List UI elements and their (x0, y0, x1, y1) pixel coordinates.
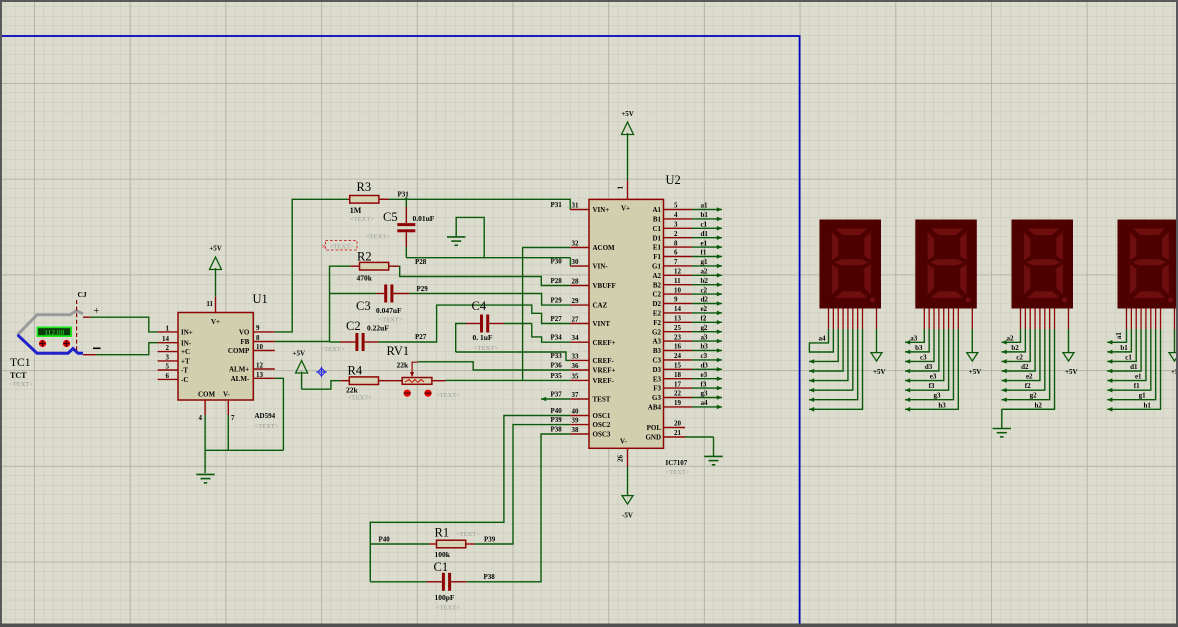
capacitor C3 (376, 285, 409, 303)
svg-text:26: 26 (617, 455, 625, 463)
svg-text:G2: G2 (652, 328, 661, 336)
wire ground bus U1 (205, 449, 283, 451)
svg-text:×: × (321, 241, 326, 251)
svg-text:3: 3 (674, 221, 678, 229)
svg-text:VINT: VINT (593, 320, 611, 328)
U2 pin 2 D1 (652, 230, 692, 242)
TC1 minus terminal label (93, 347, 101, 349)
svg-text:d2: d2 (1021, 363, 1029, 371)
svg-text:C1: C1 (652, 225, 661, 233)
wire net b2 (692, 277, 722, 287)
label TCT (10, 371, 27, 380)
node P28 wire R2 to U2.VBUFF (399, 266, 570, 285)
U2 pin 16 B3 (653, 343, 692, 355)
svg-text:<TEXT>: <TEXT> (350, 216, 374, 223)
U2 pin 26 V- (617, 438, 628, 467)
svg-text:CREF+: CREF+ (593, 339, 616, 347)
label P31 (left) (398, 191, 410, 199)
svg-text:C2: C2 (652, 291, 661, 299)
svg-text:7: 7 (674, 258, 678, 266)
svg-text:12: 12 (674, 268, 682, 276)
svg-text:V-: V- (223, 391, 231, 399)
svg-text:POL: POL (647, 424, 662, 432)
net label P40 (551, 407, 563, 415)
svg-text:0.22uF: 0.22uF (367, 324, 389, 333)
U2 pin 24 C3 (652, 352, 692, 364)
svg-text:40: 40 (572, 408, 580, 416)
svg-text:A3: A3 (652, 338, 661, 346)
7-seg display digit 4 (820, 220, 882, 309)
svg-text:ALM-: ALM- (231, 375, 250, 383)
svg-text:C4: C4 (472, 299, 487, 313)
R3 text placeholder (350, 216, 374, 223)
svg-text:100k: 100k (435, 550, 451, 559)
wire net e1 (692, 239, 722, 249)
label P27 (left) (415, 333, 427, 341)
svg-text:5: 5 (166, 363, 170, 371)
svg-text:f3: f3 (701, 380, 707, 388)
7-seg display digit 2 (1012, 220, 1074, 309)
wire +5V to R4 (302, 381, 341, 390)
node P39 wire OSC2 to R1 (475, 425, 571, 544)
display 1 pins (1127, 309, 1175, 330)
svg-text:d1: d1 (1130, 363, 1138, 371)
net label P34 (551, 334, 563, 342)
svg-text:C2: C2 (346, 319, 361, 333)
potentiometer RV1 body (402, 378, 432, 385)
U1 pin 4 COM (198, 391, 216, 423)
U1 pin 13 ALM- (231, 371, 275, 383)
svg-text:b3: b3 (701, 343, 709, 351)
U1 text placeholder (255, 423, 279, 430)
label C3 (356, 299, 371, 313)
wire net a1 (692, 202, 722, 212)
svg-text:a1: a1 (701, 202, 709, 210)
svg-text:14: 14 (162, 335, 170, 343)
label C2 (346, 319, 361, 333)
svg-text:E3: E3 (653, 375, 662, 383)
svg-text:U1: U1 (253, 292, 268, 306)
svg-text:4: 4 (199, 414, 203, 422)
svg-text:2: 2 (166, 344, 170, 352)
display 2 pins (1021, 309, 1069, 330)
svg-text:P35: P35 (551, 372, 563, 380)
svg-text:<TEXT>: <TEXT> (436, 605, 460, 612)
label P39 (R1) (484, 536, 496, 544)
wire U1.FB to node (275, 341, 330, 343)
svg-text:6: 6 (674, 249, 678, 257)
svg-text:e3: e3 (930, 373, 937, 381)
wire net f3 (692, 380, 722, 390)
svg-text:RV1: RV1 (387, 344, 410, 358)
display 2 +5V (1063, 329, 1078, 376)
C4 text placeholder (474, 345, 498, 352)
svg-text:f2: f2 (1025, 382, 1031, 390)
svg-text:CAZ: CAZ (593, 302, 608, 310)
svg-text:C3: C3 (356, 299, 371, 313)
svg-text:VIN-: VIN- (593, 263, 609, 271)
svg-text:B1: B1 (653, 216, 662, 224)
svg-text:C5: C5 (383, 210, 398, 224)
RV1 indicator dot 1 (404, 390, 411, 397)
display 1 segment wires (1107, 329, 1160, 412)
svg-text:10: 10 (674, 286, 682, 294)
node P38 wire C1 to OSC3 (466, 434, 570, 582)
U2 pin 20 POL (647, 420, 685, 433)
svg-text:A1: A1 (652, 206, 661, 214)
svg-text:22: 22 (674, 390, 682, 398)
U1 pin 1 IN+ (158, 324, 193, 336)
C2 text placeholder (321, 346, 345, 353)
svg-text:<TEXT>: <TEXT> (436, 392, 460, 399)
svg-text:1: 1 (166, 324, 170, 332)
svg-text:9: 9 (674, 296, 678, 304)
capacitor C5 (397, 207, 415, 247)
net label P37 (551, 391, 563, 399)
net label P27 (551, 315, 563, 323)
svg-text:18: 18 (674, 371, 682, 379)
svg-text:+5V: +5V (621, 110, 634, 118)
U1 pin 11 V+ (206, 297, 220, 326)
U2 pin 34 CREF+ (570, 334, 615, 347)
TC1 junction dot 1 (39, 340, 46, 347)
wire net c3 (692, 352, 722, 362)
thermocouple TC1 blue lead (18, 335, 84, 353)
wire U1.VO to R3 (275, 199, 348, 332)
svg-text:<TEXT>: <TEXT> (255, 423, 279, 430)
U2 pin 29 CAZ (570, 297, 607, 310)
U1 pin 5 -T (158, 363, 189, 375)
svg-text:a4: a4 (819, 335, 827, 343)
svg-text:VREF-: VREF- (593, 377, 615, 385)
U2 pin 18 E3 (653, 371, 692, 383)
wire net c1 (692, 221, 722, 231)
svg-text:-T: -T (181, 367, 188, 375)
svg-text:6: 6 (166, 372, 170, 380)
wire net e2 (692, 305, 722, 315)
svg-text:15: 15 (674, 362, 682, 370)
origin marker (blue) (316, 367, 327, 378)
label C4 (472, 299, 487, 313)
U1 pin 9 VO (239, 324, 275, 337)
label 0.01uF (413, 214, 435, 223)
wire TC1- to U1 pin14 (83, 343, 158, 355)
wire U2.GND to ground (685, 437, 714, 456)
svg-text:12: 12 (256, 362, 264, 370)
error marker dashed box (321, 241, 357, 251)
R4 text placeholder (348, 395, 372, 402)
wire C5 top to P31 (404, 197, 409, 207)
svg-text:b2: b2 (701, 277, 709, 285)
U2 pin 9 D2 (652, 296, 692, 308)
C3 text placeholder (379, 317, 403, 324)
wire U1 ALM- down (275, 378, 284, 450)
wire C1 left (370, 581, 426, 583)
resistor R3 (348, 196, 389, 204)
svg-text:16: 16 (674, 343, 682, 351)
label IC7107 (666, 459, 688, 467)
U2 pin 33 CREF- (570, 352, 614, 365)
svg-text:AD594: AD594 (255, 412, 276, 420)
svg-text:+5V: +5V (873, 368, 886, 376)
U2 pin 40 OSC1 (570, 408, 611, 421)
svg-text:P29: P29 (551, 297, 563, 305)
wire net d1 (692, 230, 722, 240)
svg-text:22k: 22k (397, 361, 410, 370)
display 3 segment wires (905, 329, 958, 412)
wire net a3 (692, 333, 722, 343)
svg-text:COMP: COMP (228, 347, 250, 355)
RV1 indicator dot 2 (424, 390, 431, 397)
U1 pin 7 V- (223, 391, 235, 423)
svg-text:V+: V+ (211, 318, 220, 326)
label R2 (357, 250, 372, 264)
label R3 (357, 180, 372, 194)
svg-text:17: 17 (674, 380, 682, 388)
svg-text:0.01uF: 0.01uF (413, 214, 435, 223)
svg-text:20: 20 (674, 420, 682, 428)
svg-text:P34: P34 (551, 334, 563, 342)
svg-text:c3: c3 (701, 352, 708, 360)
label P28 (415, 258, 427, 266)
wire RV1 right to VREF- rail (432, 379, 570, 381)
svg-text:13: 13 (256, 371, 264, 379)
svg-text:P38: P38 (551, 426, 563, 434)
svg-text:f1: f1 (701, 249, 707, 257)
U2 pin 13 F2 (653, 315, 692, 327)
label 100k (435, 550, 451, 559)
label AD594 (255, 412, 276, 420)
wire C2 left to FB node (330, 341, 341, 343)
display 4 segment wires (809, 329, 863, 412)
svg-text:VIN+: VIN+ (593, 206, 610, 214)
svg-text:7: 7 (231, 414, 235, 422)
capacitor C2 (340, 333, 378, 351)
net label P30 (551, 258, 563, 266)
svg-text:F1: F1 (653, 253, 661, 261)
svg-text:f2: f2 (701, 315, 707, 323)
U2 pin 35 VREF- (570, 372, 614, 385)
svg-text:OSC3: OSC3 (593, 431, 611, 439)
U2 pin 8 E1 (653, 239, 692, 251)
svg-text:g3: g3 (933, 392, 941, 400)
U2 pin 14 E2 (653, 305, 692, 317)
CJ dashed line (76, 300, 78, 352)
svg-text:<TEXT>: <TEXT> (666, 469, 690, 476)
svg-text:B3: B3 (653, 347, 662, 355)
svg-text:R1: R1 (435, 526, 450, 540)
svg-text:+5V: +5V (969, 368, 982, 376)
7-seg display digit 1 (1118, 220, 1178, 309)
net label P33 (551, 352, 563, 360)
svg-text:+5V: +5V (209, 245, 222, 253)
svg-text:22k: 22k (346, 386, 359, 395)
svg-text:CJ: CJ (78, 290, 87, 299)
svg-text:P27: P27 (551, 315, 563, 323)
svg-text:8: 8 (256, 334, 260, 342)
svg-text:GND: GND (645, 434, 661, 442)
svg-text:24: 24 (674, 352, 682, 360)
7-seg display digit 3 (915, 220, 977, 309)
wire net d2 (692, 296, 722, 306)
U1 pin 2 +C (158, 344, 190, 356)
svg-text:b3: b3 (915, 344, 923, 352)
display 3 +5V (967, 329, 982, 376)
U2 pin 28 VBUFF (570, 278, 616, 291)
wire h2 to ground (1002, 409, 1055, 428)
svg-text:31: 31 (572, 202, 580, 210)
U2 pin 1 V+ (617, 180, 631, 212)
svg-text:D1: D1 (652, 234, 661, 242)
svg-text:h2: h2 (1035, 401, 1043, 409)
svg-text:470k: 470k (357, 274, 373, 283)
capacitor C4 (466, 315, 504, 333)
net label P38 (551, 426, 563, 434)
svg-text:P28: P28 (551, 277, 563, 285)
node P29 wire C3 to U2.CAZ (409, 294, 570, 306)
svg-text:-5V: -5V (622, 512, 633, 520)
svg-text:g2: g2 (701, 324, 709, 332)
svg-text:AB4: AB4 (648, 404, 662, 412)
label P40 (379, 536, 391, 544)
net label P29 (551, 297, 563, 305)
svg-text:+C: +C (181, 348, 190, 356)
U2 pin 38 OSC3 (570, 426, 611, 439)
display 3 net labels (910, 334, 946, 409)
node CREF- rail to U2 pin33 (456, 352, 571, 360)
U2 pin 12 A2 (652, 268, 692, 280)
U1 pin 14 IN- (158, 335, 192, 347)
svg-text:d2: d2 (701, 296, 709, 304)
wire net a4 (692, 399, 722, 409)
svg-text:C3: C3 (652, 357, 661, 365)
svg-text:27: 27 (572, 316, 580, 324)
ground at U1 (196, 474, 214, 482)
svg-text:-C: -C (181, 376, 188, 384)
U2 pin 25 G2 (652, 324, 692, 336)
R1 text placeholder (456, 531, 480, 538)
power +5V at U1 (209, 245, 222, 297)
svg-text:<TEXT>: <TEXT> (456, 531, 480, 538)
TC1 plus terminal label (94, 306, 100, 317)
svg-text:37: 37 (572, 391, 580, 399)
svg-text:P28: P28 (415, 258, 427, 266)
svg-text:h3: h3 (938, 401, 946, 409)
svg-text:3: 3 (166, 353, 170, 361)
wire net f1 (692, 249, 722, 259)
svg-text:R2: R2 (357, 250, 372, 264)
svg-text:CREF-: CREF- (593, 357, 615, 365)
svg-text:a2: a2 (701, 268, 709, 276)
svg-text:<TEXT>: <TEXT> (379, 317, 403, 324)
svg-text:5: 5 (674, 202, 678, 210)
svg-text:G3: G3 (652, 394, 661, 402)
svg-text:35: 35 (572, 372, 580, 380)
U2 pin 23 A3 (652, 333, 692, 345)
sheet border (blue) (2, 36, 800, 627)
svg-text:FB: FB (240, 338, 249, 346)
svg-text:OSC1: OSC1 (593, 412, 611, 420)
svg-text:G1: G1 (652, 263, 661, 271)
label C1 (434, 560, 449, 574)
svg-text:TC1: TC1 (10, 357, 31, 369)
C5 text placeholder (366, 234, 390, 241)
svg-text:P39: P39 (484, 536, 496, 544)
U2 pin 27 VINT (570, 316, 610, 329)
U2 pin 3 C1 (652, 221, 692, 233)
svg-text:11: 11 (206, 300, 213, 308)
svg-text:c1: c1 (1125, 353, 1132, 361)
U2 pin 32 ACOM (570, 240, 615, 253)
net label P35 (551, 372, 563, 380)
svg-text:c2: c2 (701, 286, 708, 294)
svg-text:P39: P39 (551, 416, 563, 424)
TC1 junction dot 2 (63, 340, 70, 347)
svg-text:VO: VO (239, 329, 250, 337)
RV1 wiper arrow (410, 362, 418, 377)
TC1 text placeholder (9, 381, 33, 388)
svg-text:+5V: +5V (293, 350, 306, 358)
U2 pin 19 AB4 (648, 399, 692, 411)
svg-text:39: 39 (572, 417, 580, 425)
op-amp U1 body (178, 313, 253, 401)
label P29 (left) (417, 285, 429, 293)
net label P28 (551, 277, 563, 285)
wire U1 COM to ground (204, 415, 206, 473)
svg-text:P37: P37 (551, 391, 563, 399)
svg-text:1M: 1M (350, 206, 362, 215)
svg-text:COM: COM (198, 391, 216, 399)
svg-text:C1: C1 (434, 560, 449, 574)
svg-text:a2: a2 (1007, 334, 1015, 342)
svg-text:R4: R4 (348, 364, 363, 378)
svg-text:38: 38 (572, 426, 580, 434)
svg-text:25: 25 (674, 324, 682, 332)
U1 pin 6 -C (158, 372, 189, 384)
svg-text:P40: P40 (379, 536, 391, 544)
wire C5 bottom to P30 rail (405, 247, 407, 258)
label CJ (78, 290, 87, 299)
U1 pin 8 FB (240, 334, 274, 346)
svg-text:P31: P31 (398, 191, 410, 199)
U1 pin 12 ALM+ (229, 362, 275, 374)
U2 text placeholder (666, 469, 690, 476)
net label a4 (819, 335, 827, 343)
svg-text:e2: e2 (701, 305, 708, 313)
svg-text:a3: a3 (701, 333, 709, 341)
label 470k (357, 274, 373, 283)
svg-text:IC7107: IC7107 (666, 459, 688, 467)
svg-text:b2: b2 (1011, 344, 1019, 352)
svg-text:TEST: TEST (593, 396, 611, 404)
label P38 (C1) (484, 573, 496, 581)
svg-text:h1: h1 (1144, 401, 1152, 409)
power -5V at U2 (622, 467, 633, 520)
U1 pin 3 +T (158, 353, 190, 365)
resistor R4 (340, 377, 402, 385)
svg-text:d1: d1 (701, 230, 709, 238)
capacitor C1 (426, 573, 466, 591)
U2 pin 17 F3 (653, 380, 692, 392)
U2 pin 36 VREF+ (570, 362, 615, 375)
svg-text:c2: c2 (1016, 353, 1023, 361)
svg-text:IN-: IN- (181, 339, 192, 347)
svg-text:21: 21 (674, 429, 682, 437)
U2 pin 7 G1 (652, 258, 692, 270)
wire net f2 (692, 315, 722, 325)
svg-text:E2: E2 (653, 310, 662, 318)
svg-text:ALM+: ALM+ (229, 366, 249, 374)
